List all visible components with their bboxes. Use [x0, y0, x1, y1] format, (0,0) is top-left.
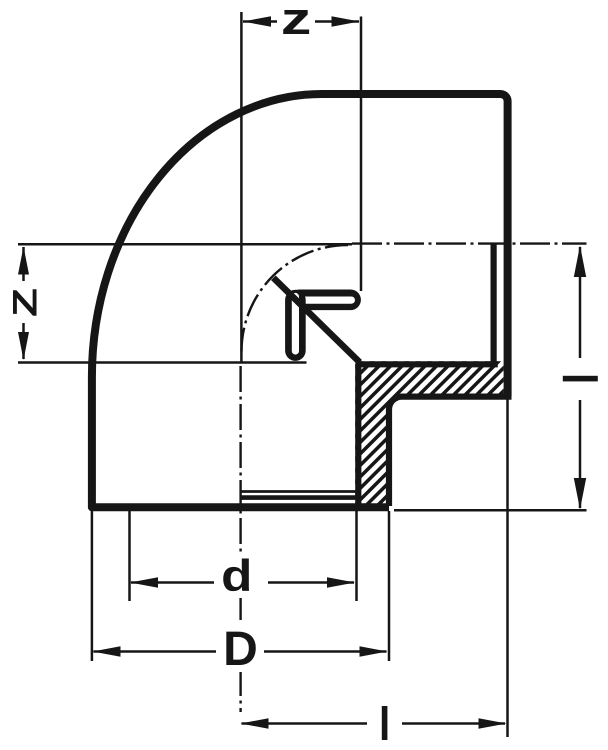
dimension D: line	[94, 650, 387, 653]
diagonal stop transition edge	[273, 278, 359, 363]
dimension l right: bottom arrow	[574, 478, 586, 510]
dimension z: left arrow	[243, 16, 271, 27]
bottom socket mouth lip line (thin)	[240, 490, 358, 493]
svg-text:D: D	[223, 623, 258, 676]
wire: dash-dot bore centerline arc	[242, 245, 349, 352]
wire: vertical extension line x=241 (z left / bottom port centerline, solid part)	[240, 12, 243, 363]
svg-text:d: d	[221, 552, 252, 601]
wire: horizontal extension line y=244 (Z top / right port centerline, solid part)	[18, 243, 352, 246]
dimension Z: top arrow	[18, 247, 29, 275]
wire: Z bottom extension line y=362.5	[18, 361, 307, 364]
wire: D right extension	[388, 511, 391, 661]
dimension l bottom: left arrow	[241, 718, 269, 729]
dimension l bottom: line	[242, 722, 506, 725]
dimension Z: line	[22, 247, 25, 359]
wire: right-l bottom extension y=510	[394, 509, 587, 512]
dimension l bottom: right arrow	[479, 718, 507, 729]
label l right (rotated bar)	[563, 376, 598, 382]
dimension d: right arrow	[327, 577, 355, 588]
wire: horizontal centerline dash-dot to right dimension	[352, 242, 587, 244]
wire: D left extension	[91, 511, 94, 661]
dimension d: line	[131, 581, 354, 584]
dimension D: left arrow	[93, 646, 121, 657]
socket stop step: vertical capsule (bottom port pipe stop)	[285, 300, 306, 351]
svg-text:Z: Z	[5, 288, 43, 317]
wire: bottom-l right extension x=507.5	[506, 399, 509, 737]
section wall: bore inner surfaces (hatch boundary top+left)	[358, 364, 498, 506]
dimension l right: line	[579, 247, 582, 508]
socket stop step: horizontal capsule (right port pipe stop)	[299, 289, 351, 310]
elbow body outer profile	[92, 94, 508, 507]
wire: vertical centerline dash-dot below figure	[239, 366, 241, 712]
right socket mouth inner edge	[491, 244, 497, 362]
dimension d: left arrow	[130, 577, 158, 588]
svg-text:z: z	[281, 0, 312, 44]
dimension D: right arrow	[360, 646, 388, 657]
dimension Z: bottom arrow	[18, 332, 29, 360]
wire: z right extension line x=361	[360, 17, 363, 292]
wire: d right extension	[355, 511, 358, 601]
wire: d left extension	[128, 511, 131, 601]
dimension z: line	[243, 20, 359, 23]
bottom socket mouth lip line (thick)	[240, 495, 358, 500]
section wall: right socket outer bottom + bottom socket outer right with fillet	[389, 397, 512, 506]
label l bottom	[382, 706, 388, 740]
dimension l right: top arrow	[574, 246, 586, 278]
dimension z: right arrow	[332, 16, 360, 27]
hatch section fill	[182, 250, 608, 540]
